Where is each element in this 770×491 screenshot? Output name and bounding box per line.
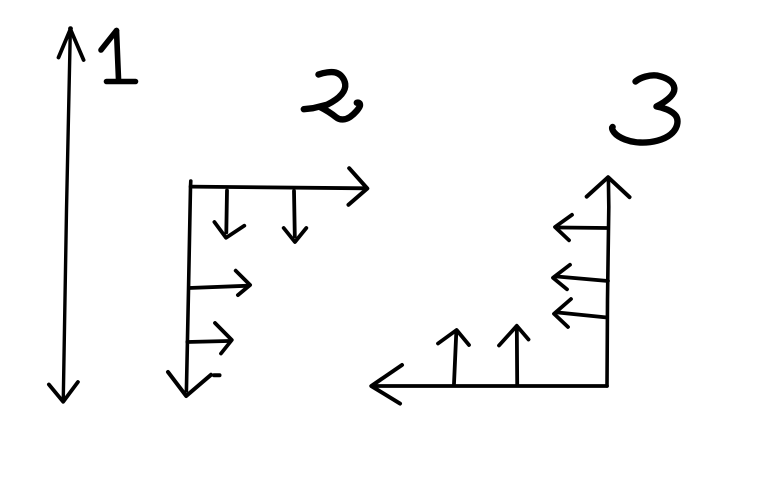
wire: figure 2 top horizontal arrow shaft [191, 187, 366, 189]
arrow: figure 2 down arrow A [214, 191, 244, 238]
arrow: figure 3 left arrow C [554, 299, 607, 327]
label 1 [101, 31, 136, 82]
arrow: figure 3 up arrow B [499, 326, 529, 385]
wire: figure 2 vertical axis [186, 181, 190, 391]
wire: figure 3 bottom horizontal shaft [375, 384, 607, 388]
arrowhead: figure 2 axis bottom (down) [168, 372, 211, 396]
arrow: figure 2 down arrow B [284, 191, 307, 242]
node: small dash near figure 2 bottom arrowhead [214, 373, 220, 377]
arrow: figure 2 right arrow B [187, 323, 232, 354]
arrow: figure 2 right arrow A [189, 271, 250, 295]
arrowhead: figure 1 down [49, 382, 78, 402]
label 3 [612, 75, 677, 142]
arrowhead: figure 1 up [59, 26, 84, 60]
arrow: figure 3 up arrow A [438, 330, 469, 384]
arrowhead: figure 2 top arrow (right) [349, 168, 368, 205]
wire: figure 3 vertical axis [607, 179, 609, 386]
wire: figure 1 vertical shaft [63, 31, 70, 398]
arrowhead: figure 3 bottom arrow (left) [371, 365, 402, 404]
arrowhead: figure 3 axis top (up) [587, 177, 630, 197]
arrow: figure 3 left arrow A [555, 215, 608, 241]
label 2 [304, 72, 360, 119]
arrow: figure 3 left arrow B [553, 265, 608, 290]
